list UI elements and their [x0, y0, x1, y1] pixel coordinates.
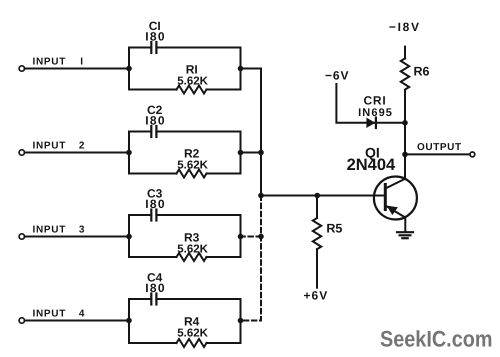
svg-text:5.62K: 5.62K [177, 160, 208, 172]
svg-text:INPUT: INPUT [33, 141, 67, 152]
svg-text:5.62K: 5.62K [177, 244, 208, 256]
svg-text:4: 4 [79, 309, 85, 320]
svg-text:INPUT: INPUT [33, 309, 67, 320]
svg-text:−I8V: −I8V [389, 20, 421, 34]
svg-text:R4: R4 [184, 315, 200, 329]
svg-text:CRI: CRI [363, 94, 386, 108]
svg-text:2: 2 [79, 141, 85, 152]
svg-text:SeekIC.com: SeekIC.com [380, 327, 493, 352]
svg-text:5.62K: 5.62K [177, 76, 208, 88]
svg-text:I80: I80 [145, 113, 166, 127]
svg-text:I80: I80 [145, 281, 166, 295]
svg-text:I80: I80 [145, 197, 166, 211]
svg-text:R6: R6 [414, 65, 430, 79]
svg-text:IN695: IN695 [358, 107, 393, 119]
svg-text:R2: R2 [184, 147, 200, 161]
svg-text:RI: RI [186, 63, 198, 77]
svg-text:−6V: −6V [325, 69, 349, 83]
svg-text:3: 3 [79, 225, 85, 236]
svg-text:5.62K: 5.62K [177, 328, 208, 340]
svg-text:2N404: 2N404 [347, 156, 396, 174]
svg-text:I: I [80, 57, 83, 68]
svg-text:+6V: +6V [304, 289, 329, 303]
svg-text:R5: R5 [326, 222, 342, 236]
svg-text:INPUT: INPUT [33, 225, 67, 236]
svg-text:OUTPUT: OUTPUT [417, 142, 462, 153]
svg-text:I80: I80 [145, 29, 166, 43]
svg-text:R3: R3 [184, 231, 200, 245]
svg-text:INPUT: INPUT [33, 57, 67, 68]
